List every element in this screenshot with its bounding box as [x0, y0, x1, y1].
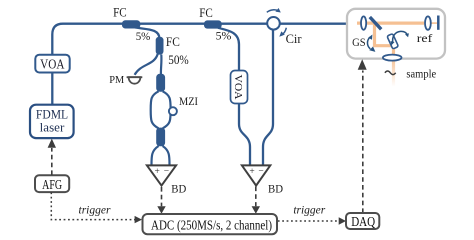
label FC1	[113, 5, 127, 19]
svg-text:BD: BD	[171, 182, 186, 196]
wire: main fiber trunk from VOA1 up and across to scan head	[52, 24, 354, 105]
label ref	[417, 31, 432, 45]
value label 5% (FC2 tap)	[216, 29, 232, 43]
value label 5% (FC1 tap)	[136, 29, 151, 43]
collimating lens	[361, 16, 366, 29]
dotted trigger: AFG to ADC	[51, 192, 142, 223]
fiber coupler FC2 (95/5)	[204, 20, 222, 28]
fiber coupler FC1 (95/5)	[122, 20, 140, 28]
svg-text:laser: laser	[40, 119, 65, 134]
svg-text:ADC (250MS/s, 2 channel): ADC (250MS/s, 2 channel)	[151, 219, 272, 234]
svg-text:BD: BD	[268, 182, 283, 196]
svg-text:+: +	[249, 167, 254, 177]
svg-text:FC: FC	[113, 5, 127, 19]
AFG box	[35, 175, 69, 192]
svg-text:5%: 5%	[136, 29, 151, 43]
reference arm lens	[425, 16, 431, 29]
svg-text:FC: FC	[199, 6, 213, 20]
wire: 5% tap from FC1 down to 50/50 coupler	[134, 27, 159, 38]
balanced detector BD2	[242, 165, 270, 185]
DAQ box	[346, 213, 379, 229]
attenuator VOA1 box	[35, 55, 69, 73]
free-space beam to sample (fading)	[392, 59, 395, 87]
svg-text:sample: sample	[406, 67, 436, 81]
label trigger (right)	[293, 204, 325, 216]
wire: branch from 50/50 coupler to power meter PM	[135, 54, 158, 75]
svg-text:trigger: trigger	[293, 204, 325, 216]
label sample	[406, 67, 436, 81]
FDML laser box	[30, 105, 74, 138]
dashed control: AFG to FDML laser	[48, 139, 56, 175]
MZI delay loop	[169, 107, 177, 115]
svg-text:5%: 5%	[216, 29, 232, 43]
svg-text:PM: PM	[109, 74, 124, 86]
circulator rotation arrow (lower right)	[279, 28, 286, 37]
svg-text:−: −	[164, 167, 169, 177]
circulator Cir	[267, 17, 280, 30]
svg-text:GS: GS	[352, 37, 366, 49]
free-space beam (down from beamsplitter, to galvo, to objective)	[375, 23, 394, 59]
label BD2	[268, 182, 283, 196]
circulator rotation arrow (top)	[267, 8, 281, 13]
sample squiggle	[385, 71, 396, 75]
dashed signal: BD1 to ADC	[157, 187, 165, 214]
balanced detector BD1	[147, 165, 176, 185]
svg-text:DAQ: DAQ	[351, 214, 375, 229]
fold mirror (beamsplitter)	[370, 17, 381, 29]
dotted trigger: ADC to DAQ	[278, 217, 346, 224]
svg-text:AFG: AFG	[42, 177, 62, 192]
label FC2	[199, 6, 213, 20]
label PM	[109, 74, 124, 86]
fiber coupler FC 50/50	[156, 37, 164, 55]
galvo rotation arrow	[391, 31, 409, 45]
wire: 50% branch down into MZI top coupler	[160, 55, 163, 74]
wire: MZI output fibers into balanced detector BD1	[152, 146, 170, 165]
label FC (50/50 coupler)	[166, 34, 180, 49]
wire: MZI right arm arc	[163, 91, 171, 128]
ADC box	[143, 214, 278, 234]
dashed signal: BD2 to ADC	[252, 187, 260, 214]
wire: MZI left arm arc	[151, 91, 159, 128]
wire: circulator return port down to BD2	[263, 30, 273, 165]
svg-text:Cir: Cir	[286, 32, 303, 46]
scan direction double arrow near GS	[367, 35, 375, 52]
attenuator VOA2 box (vertical)	[231, 71, 248, 104]
wire: 5% tap from FC2 through VOA2 down to BD2	[218, 28, 250, 165]
power meter PM symbol	[127, 77, 143, 84]
objective lens (bottom of scan head)	[383, 55, 402, 61]
svg-text:VOA: VOA	[40, 56, 64, 71]
svg-text:+: +	[155, 167, 160, 177]
label BD1	[171, 182, 186, 196]
free-space beam (horizontal, to reference arm)	[357, 22, 437, 25]
MZI top coupler block	[156, 74, 165, 92]
dashed control: DAQ to scan head	[358, 59, 367, 213]
label trigger (left)	[79, 205, 111, 217]
galvo scan mirror	[387, 34, 399, 49]
MZI bottom coupler block	[156, 128, 165, 147]
svg-text:VOA: VOA	[232, 75, 244, 100]
label Cir	[286, 32, 303, 46]
value label 50%	[168, 53, 189, 67]
svg-text:FC: FC	[166, 34, 180, 49]
label GS	[352, 37, 366, 49]
reference mirror	[437, 16, 440, 30]
label MZI	[179, 96, 198, 108]
scan head enclosure (GS box)	[347, 9, 445, 59]
svg-text:ref: ref	[417, 31, 432, 45]
svg-text:MZI: MZI	[179, 96, 198, 108]
svg-text:50%: 50%	[168, 53, 189, 67]
svg-text:trigger: trigger	[79, 205, 111, 217]
svg-text:−: −	[258, 167, 263, 177]
